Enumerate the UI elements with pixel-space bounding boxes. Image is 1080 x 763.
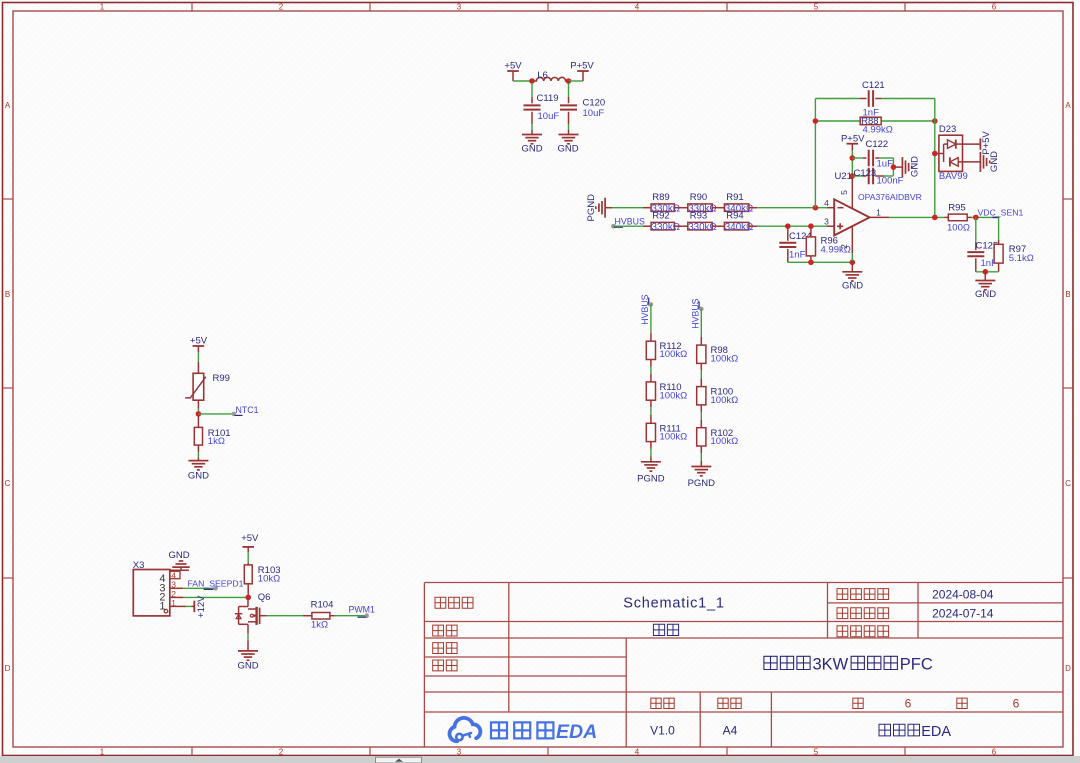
net label PWM1	[364, 613, 369, 618]
node junction R96 top	[808, 223, 814, 229]
frame row ticks	[3, 199, 1074, 578]
wire R98-R100	[700, 363, 702, 370]
ground flag PGND (left chain)	[641, 462, 661, 471]
svg-text:4: 4	[635, 3, 640, 12]
svg-text:100kΩ: 100kΩ	[711, 354, 739, 365]
svg-text:PFC: PFC	[900, 656, 933, 674]
resistor R98	[697, 345, 706, 363]
svg-text:R99: R99	[213, 373, 230, 384]
frame column numbers top	[100, 3, 997, 12]
svg-text:GND: GND	[521, 144, 542, 155]
ground GND under R101	[188, 461, 208, 470]
svg-text:5.1kΩ: 5.1kΩ	[1009, 253, 1034, 264]
power flag P+5V (top filter)	[577, 70, 589, 72]
svg-text:R90: R90	[690, 192, 707, 203]
svg-text:B: B	[5, 290, 10, 299]
ground GND under C120	[559, 135, 579, 144]
svg-text:GND: GND	[237, 661, 258, 672]
svg-text:D: D	[1065, 664, 1071, 673]
svg-text:R93: R93	[690, 211, 707, 222]
resistor R88	[860, 117, 881, 125]
svg-text:U21: U21	[835, 171, 852, 182]
svg-text:PGND: PGND	[586, 194, 597, 222]
node junction output feedback	[932, 215, 938, 221]
ground GND under C119	[522, 135, 542, 144]
svg-text:OPA376AIDBVR: OPA376AIDBVR	[858, 192, 922, 202]
wire to C125	[975, 217, 977, 242]
wire C120 to GND	[568, 112, 570, 124]
svg-text:2: 2	[279, 748, 284, 757]
svg-text:1: 1	[100, 3, 105, 12]
svg-text:D23: D23	[939, 124, 956, 135]
power flag +12V (rotated)	[193, 601, 195, 612]
svg-text:V1.0: V1.0	[650, 724, 675, 738]
wire bottom C125-R97	[976, 271, 999, 273]
svg-text:3: 3	[457, 3, 462, 12]
wire NTC1 stub	[198, 413, 233, 415]
title label wuliaobianma (part code)	[837, 626, 889, 637]
svg-text:4: 4	[824, 198, 829, 208]
svg-text:R92: R92	[652, 211, 669, 222]
resistor R111	[646, 423, 655, 441]
wire node to C119	[531, 81, 533, 83]
title block grid lines	[424, 583, 1063, 748]
svg-text:Schematic1_1: Schematic1_1	[623, 596, 725, 612]
node junction C122 tap	[850, 155, 856, 161]
svg-text:GND: GND	[188, 470, 209, 481]
capacitor C121	[868, 90, 870, 107]
power flag P+5V (D23, rotated)	[979, 138, 981, 149]
svg-text:330kΩ: 330kΩ	[688, 222, 717, 233]
svg-text:PGND: PGND	[688, 478, 716, 489]
title label huizhi (drawn by)	[433, 643, 457, 654]
connector X3 pin 4 box	[170, 571, 180, 578]
wire R89-R90	[674, 207, 687, 209]
title value caiyang (sampling)	[653, 624, 678, 635]
svg-text:R104: R104	[311, 599, 334, 610]
wire op-amp output	[870, 216, 889, 218]
power flag +5V (top filter)	[507, 70, 519, 72]
wire HVBUS to R98	[700, 309, 702, 337]
svg-text:PGND: PGND	[637, 473, 665, 484]
svg-text:6: 6	[1013, 697, 1020, 711]
svg-text:2: 2	[839, 244, 849, 249]
svg-text:HVBUS: HVBUS	[615, 217, 645, 227]
wire R110-R111	[650, 400, 652, 407]
ground flag PGND (right chain)	[691, 467, 711, 476]
wire bottom C124-R96-pin2	[788, 261, 853, 263]
svg-text:340kΩ: 340kΩ	[725, 222, 754, 233]
svg-text:L6: L6	[537, 70, 548, 81]
wire node to C120	[568, 81, 570, 83]
node junction C124 top	[785, 223, 791, 229]
wire PGND to R89	[605, 207, 612, 209]
wire HVBUS to R92	[613, 225, 643, 227]
svg-text:6: 6	[992, 748, 997, 757]
svg-text:10kΩ: 10kΩ	[258, 573, 280, 584]
svg-text:2024-08-04: 2024-08-04	[932, 588, 994, 602]
wire R93-R94	[712, 225, 724, 227]
resistor R103	[244, 565, 252, 584]
node junction feedback left	[813, 205, 819, 211]
svg-text:GND: GND	[975, 289, 996, 300]
wire feedback left vertical	[814, 99, 816, 208]
svg-text:GND: GND	[910, 156, 921, 177]
svg-text:B: B	[1065, 290, 1070, 299]
svg-text:1uF: 1uF	[877, 159, 894, 170]
svg-text:+5V: +5V	[241, 533, 259, 544]
title label shenyue (reviewed)	[433, 660, 457, 671]
wire C125 to bottom	[975, 258, 977, 272]
ground GND under Q6	[238, 651, 258, 660]
node junction output gnd	[983, 269, 989, 275]
svg-text:1nF: 1nF	[789, 250, 806, 261]
capacitor C124	[787, 226, 789, 241]
wire L6 to P+5V	[569, 80, 584, 82]
ground flag PGND (input row)	[596, 198, 605, 218]
capacitor C125	[967, 251, 984, 253]
resistor R94	[724, 222, 749, 230]
svg-text:4: 4	[635, 748, 640, 757]
frame column numbers bottom	[100, 748, 997, 757]
svg-text:BAV99: BAV99	[939, 171, 968, 182]
logo text jialichuang	[491, 722, 507, 738]
svg-text:R94: R94	[726, 211, 743, 222]
svg-text:GND: GND	[557, 144, 578, 155]
frame column ticks	[192, 3, 905, 756]
frame row letters	[5, 101, 1072, 673]
svg-text:+5V: +5V	[504, 61, 522, 72]
node junction VDC_SEN1	[973, 215, 979, 221]
svg-text:6: 6	[992, 3, 997, 12]
net label NTC1	[232, 412, 237, 417]
wire R92-R93	[674, 225, 687, 227]
resistor R97	[994, 244, 1003, 263]
svg-text:3: 3	[824, 217, 829, 227]
svg-text:5: 5	[814, 748, 819, 757]
svg-text:C120: C120	[583, 97, 606, 108]
wire R99 to node	[197, 400, 199, 408]
resistor R93	[688, 222, 712, 230]
ground GND under C125/R97	[984, 272, 986, 281]
title value jialichuangEDA (company)	[879, 724, 920, 736]
diode D23 BAV99	[935, 153, 944, 155]
svg-text:10uF: 10uF	[583, 108, 605, 119]
svg-text:R89: R89	[652, 192, 669, 203]
resistor R110	[646, 382, 655, 400]
node junction L6 right	[566, 78, 572, 84]
resistor R101	[194, 427, 202, 445]
wire R112-R110	[650, 360, 652, 367]
svg-text:6: 6	[905, 697, 912, 711]
svg-text:C: C	[1065, 479, 1071, 488]
capacitor C120	[560, 104, 577, 106]
svg-text:GND: GND	[989, 151, 1000, 172]
svg-text:100kΩ: 100kΩ	[660, 349, 688, 360]
svg-text:EDA: EDA	[556, 721, 597, 743]
title label yuanlitu (schematic)	[435, 597, 473, 608]
svg-text:GND: GND	[168, 550, 189, 561]
svg-text:+12V: +12V	[196, 595, 207, 618]
svg-text:100kΩ: 100kΩ	[660, 390, 688, 401]
svg-text:C122: C122	[866, 139, 889, 150]
thermistor R99	[193, 373, 204, 400]
title label gengxinriqi (update date)	[837, 589, 889, 600]
svg-text:GND: GND	[842, 281, 863, 292]
node junction C123 tap	[850, 173, 856, 179]
ground GND flag (D23, rotated)	[980, 152, 989, 172]
svg-text:Q6: Q6	[258, 592, 271, 603]
inductor L6	[532, 77, 569, 81]
title label gong (of)	[957, 698, 967, 708]
svg-text:FAN_SEEPD1: FAN_SEEPD1	[187, 579, 243, 589]
svg-text:2: 2	[279, 3, 284, 12]
resistor R100	[697, 387, 706, 405]
svg-text:+5V: +5V	[190, 336, 208, 347]
svg-text:C119: C119	[537, 93, 559, 104]
net label FAN_SEEPD1	[213, 586, 218, 591]
svg-text:1kΩ: 1kΩ	[208, 436, 225, 447]
capacitor C122	[852, 157, 863, 159]
svg-text:100kΩ: 100kΩ	[660, 432, 688, 443]
resistor R112	[646, 341, 655, 359]
title label ye (page)	[853, 698, 863, 708]
node junction L6 left	[529, 78, 535, 84]
wire +5V to L6 node	[513, 80, 532, 82]
wire to R97	[998, 217, 1000, 240]
resistor R92	[651, 222, 674, 230]
resistor R90	[688, 204, 712, 212]
title label banben (version)	[651, 698, 674, 708]
wire C119 to GND	[531, 112, 533, 124]
svg-text:5: 5	[814, 3, 819, 12]
node junction D23 tap	[932, 151, 938, 157]
svg-text:A: A	[5, 101, 11, 110]
node junction R88 right	[932, 118, 938, 124]
svg-text:1: 1	[100, 748, 105, 757]
wire Q6 gate to R104	[267, 615, 304, 617]
wire R95 to VDC_SEN1	[967, 216, 971, 218]
resistor R104	[312, 613, 330, 620]
svg-text:100kΩ: 100kΩ	[711, 436, 739, 447]
svg-text:100kΩ: 100kΩ	[711, 395, 739, 406]
ground GND flag (decoupling, rotated)	[893, 166, 902, 168]
wire R101 to GND	[197, 445, 199, 452]
capacitor C119	[524, 104, 541, 106]
wire R103 to Q6 drain	[247, 584, 249, 598]
wire R94 to op-amp pin 3	[749, 225, 757, 227]
svg-text:10uF: 10uF	[538, 111, 560, 122]
wire feedback top (C121 row)	[815, 98, 860, 100]
svg-text:R91: R91	[726, 192, 743, 203]
svg-text:2024-07-14: 2024-07-14	[932, 607, 994, 621]
net label HVBUS (input row)	[611, 224, 616, 229]
op-amp U21 OPA376AIDBVR	[834, 199, 869, 235]
svg-text:3: 3	[457, 748, 462, 757]
svg-text:3KW: 3KW	[813, 656, 849, 674]
svg-text:4.99kΩ: 4.99kΩ	[863, 125, 893, 136]
wire R104 to PWM1	[330, 615, 335, 617]
wire feedback right vertical	[934, 99, 936, 218]
svg-text:330kΩ: 330kΩ	[652, 222, 681, 233]
svg-text:100nF: 100nF	[877, 175, 904, 186]
svg-text:C123: C123	[854, 168, 877, 179]
wire D23 to GND	[963, 161, 981, 163]
svg-text:A: A	[1065, 101, 1071, 110]
transistor Q6 mosfet	[247, 597, 249, 606]
node junction NTC1	[196, 411, 202, 417]
node junction pin2 gnd	[850, 260, 856, 266]
node junction R88 left	[813, 118, 819, 124]
title label chicun (size)	[718, 698, 741, 708]
wire R111 to PGND	[650, 442, 652, 449]
connector X3 pin 1 circle	[164, 609, 168, 613]
wire R97 to bottom	[998, 263, 1000, 272]
svg-text:100Ω: 100Ω	[947, 223, 970, 234]
title label chuangjianriqi (create date)	[837, 608, 889, 619]
svg-text:5: 5	[839, 190, 849, 195]
svg-text:VDC_SEN1: VDC_SEN1	[978, 207, 1024, 217]
resistor R95	[948, 214, 967, 221]
svg-text:PWM1: PWM1	[349, 604, 375, 614]
capacitor C123	[852, 175, 863, 177]
ground GND under op-amp	[851, 262, 853, 272]
bottom collapse widget	[376, 757, 422, 763]
title label tuye (sheet)	[433, 625, 457, 636]
wire R90-R91	[712, 207, 724, 209]
wire D23 to P+5V	[963, 143, 981, 145]
logo cloud icon	[449, 718, 480, 741]
connector X3 pin 4 wire	[170, 569, 189, 571]
ground GND above X3 (flipped)	[172, 566, 189, 568]
op-amp pin 2 line to gnd	[851, 227, 853, 254]
wire R91 to op-amp pin 4	[749, 207, 757, 209]
wire HVBUS to R112	[650, 304, 652, 333]
svg-text:A4: A4	[723, 724, 738, 738]
svg-text:1: 1	[876, 207, 881, 217]
svg-text:P+5V: P+5V	[570, 61, 594, 72]
resistor R96	[810, 226, 812, 237]
svg-text:NTC1: NTC1	[236, 405, 259, 415]
wire C122/C123 common to gnd	[892, 158, 894, 176]
wire R102 to PGND	[700, 446, 702, 453]
svg-text:C121: C121	[862, 80, 885, 91]
svg-text:D: D	[5, 664, 11, 673]
bottom gray bar	[0, 756, 1080, 763]
wire Q6 source to GND	[247, 624, 249, 634]
op-amp pin 5 supply line	[851, 144, 853, 151]
svg-text:EDA: EDA	[921, 724, 951, 740]
node junction Q6 drain	[245, 595, 251, 601]
wire R100-R102	[700, 405, 702, 412]
node junction R96 bottom	[808, 260, 814, 266]
svg-text:C: C	[5, 479, 11, 488]
resistor R89	[651, 204, 674, 212]
node junction decoupling gnd	[891, 164, 897, 170]
svg-text:R95: R95	[948, 203, 965, 214]
resistor R102	[697, 428, 706, 446]
resistor R91	[724, 204, 749, 212]
svg-text:1kΩ: 1kΩ	[311, 619, 328, 630]
wire feedback R88 row	[815, 120, 860, 122]
main title tanhuagui 3KW tutengzhu PFC	[764, 656, 810, 669]
